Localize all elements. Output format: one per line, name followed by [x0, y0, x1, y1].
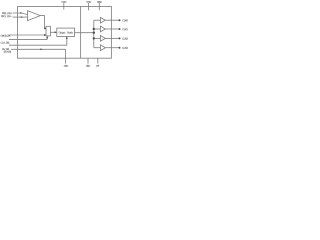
svg-text:CLK2: CLK2	[122, 37, 128, 41]
mux M1	[46, 26, 50, 36]
arrowhead mux in1	[44, 27, 46, 29]
pin GND1 wire W4 vertical	[65, 49, 67, 63]
wire nPECL_CLK	[13, 16, 28, 18]
wire CLK1 out	[105, 28, 119, 30]
svg-text:CMOS_CLK: CMOS_CLK	[0, 35, 10, 38]
pin VDD2 stub	[88, 3, 90, 10]
junction dot bus feed	[93, 32, 95, 34]
pin OE stub	[97, 58, 99, 63]
svg-text:Divide: Divide	[67, 31, 74, 35]
wire DIV_SEL W3	[9, 37, 67, 45]
wire branch Q1	[94, 28, 101, 30]
op-amp buffer B2	[100, 36, 105, 42]
svg-text:OE: OE	[96, 65, 99, 68]
terminal dot CLK0	[119, 19, 121, 21]
svg-text:PECL_CLK−: PECL_CLK−	[1, 15, 13, 18]
pin VDDO stub	[98, 3, 100, 10]
terminal dot CLK3	[119, 47, 121, 49]
svg-text:GND: GND	[64, 65, 69, 68]
op-amp buffer B0	[100, 17, 105, 23]
svg-text:CLK3: CLK3	[122, 46, 128, 50]
op-amp U2 input receiver triangle	[28, 11, 41, 21]
arrowhead PECL_CLK	[20, 12, 22, 14]
junction dot bus tap Q2	[93, 37, 95, 39]
wire receiver output to mux	[40, 16, 46, 29]
svg-text:VDD: VDD	[86, 1, 91, 4]
junction dot bus tap Q1	[93, 28, 95, 30]
pin GND2 stub	[87, 58, 89, 63]
wire CLK2 out	[105, 37, 119, 39]
partition line (core / output section)	[80, 7, 82, 59]
wire PECL_CLK	[13, 13, 28, 15]
arrowhead mid-wire W4	[40, 48, 42, 50]
svg-text:GND: GND	[86, 65, 90, 68]
svg-text:(divsel): (divsel)	[4, 51, 12, 54]
block Output Divide	[57, 28, 75, 36]
wire CMOS_CLK W1	[9, 34, 46, 36]
terminal dot CLK1	[119, 28, 121, 30]
svg-text:VDDO: VDDO	[97, 1, 102, 4]
svg-text:CLK1: CLK1	[122, 27, 128, 31]
terminal dot CLK2	[119, 37, 121, 39]
wire branch Q2	[94, 37, 101, 39]
wire branch Q0	[94, 19, 101, 21]
arrowhead mux select	[46, 36, 48, 38]
arrowhead nPECL_CLK	[21, 16, 23, 18]
device outline U1	[18, 7, 112, 59]
op-amp buffer B3	[100, 45, 105, 51]
wire CLK3 out	[105, 47, 119, 49]
svg-text:CLK0: CLK0	[122, 18, 128, 22]
wire W4 horizontal	[11, 48, 66, 50]
wire mux out	[50, 31, 56, 33]
wire divide out to bus	[75, 32, 94, 34]
arrowhead mux in2	[44, 34, 46, 36]
arrowhead divide select	[66, 37, 68, 39]
wire output bus vertical	[93, 20, 95, 48]
wire CLK0 out	[105, 19, 119, 21]
svg-text:VDD: VDD	[61, 1, 66, 4]
svg-text:CLK_SEL: CLK_SEL	[0, 42, 10, 45]
arrowhead mux out	[55, 31, 57, 33]
wire branch Q3	[94, 47, 101, 49]
op-amp buffer B1	[100, 26, 105, 32]
svg-text:Output: Output	[59, 30, 66, 34]
pin VDD stub	[63, 3, 65, 9]
wire CLK_SEL W2	[9, 37, 47, 40]
